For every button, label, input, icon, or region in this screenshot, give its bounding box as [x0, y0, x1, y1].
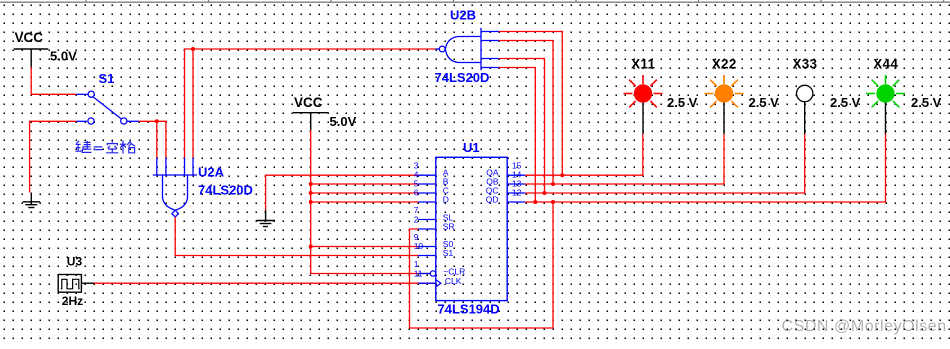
svg-text:1: 1 [414, 259, 419, 269]
wire switch lower-left to ground [30, 121, 77, 192]
lamp X33 (off) [797, 85, 813, 101]
svg-text:74LS194D: 74LS194D [438, 302, 500, 317]
IC U1 74LS194D [436, 157, 507, 300]
wire VCC2 to pin S0 [311, 246, 418, 248]
clock source U3 [58, 275, 94, 293]
svg-text:5.0V: 5.0V [50, 49, 77, 64]
U1 right pin stubs [507, 175, 525, 202]
svg-text:10: 10 [414, 241, 424, 251]
svg-text:U1: U1 [463, 140, 480, 155]
U1 left pin stubs [418, 175, 436, 283]
svg-text:U2A: U2A [198, 165, 225, 180]
wire U2B output to U2A inputs 3,4 [185, 49, 436, 158]
svg-text:X22: X22 [712, 56, 737, 71]
VCC source V1 top-left [14, 49, 49, 67]
svg-text:2.5 V: 2.5 V [667, 95, 698, 110]
U1 CLR bubble [430, 271, 435, 276]
junction VCC-C [309, 191, 313, 195]
svg-text:X44: X44 [873, 56, 898, 71]
lamp X22 (orange, on) [705, 75, 744, 107]
U1 pin numbers right [512, 160, 522, 197]
svg-text:2.5 V: 2.5 V [830, 95, 861, 110]
junction QA [560, 173, 564, 177]
junction QC [543, 191, 547, 195]
wire VCC2 to pin B [311, 183, 418, 185]
junction U2B out branch [191, 47, 195, 51]
junction QD-feedback [551, 200, 555, 204]
junction VCC-D [309, 200, 313, 204]
junction switch-common [155, 119, 159, 123]
wire QD to lamp X44 [525, 134, 885, 202]
nand gate U2A (74LS20D, vertical) [153, 158, 197, 217]
svg-text:7: 7 [414, 205, 419, 215]
U1 pin names [443, 168, 499, 286]
wire QB to lamp X22 [525, 134, 724, 184]
svg-text:2Hz: 2Hz [62, 294, 83, 308]
svg-text:D: D [443, 194, 449, 204]
ground GND2 to pin A [266, 175, 419, 210]
svg-text:5.0V: 5.0V [330, 114, 357, 129]
wire QC to U2B input3 [499, 59, 545, 194]
wire VCC2 bus down [311, 130, 431, 274]
svg-text:X33: X33 [792, 56, 817, 71]
svg-text:74LS20D: 74LS20D [198, 183, 253, 198]
label key=space (CJK approximated) [75, 141, 91, 153]
svg-text:2: 2 [414, 214, 419, 224]
wire U3 to U1 CLK [94, 282, 436, 284]
wire VCC2 to pin D [311, 201, 418, 203]
svg-text:74LS20D: 74LS20D [435, 70, 490, 85]
svg-text:SR: SR [443, 222, 455, 232]
wire QD to U2B input4 [499, 68, 535, 203]
U1 pin numbers left [414, 160, 424, 278]
sheet border top line [0, 0, 950, 2]
svg-text:U3: U3 [67, 255, 83, 269]
svg-text:S1: S1 [443, 248, 454, 258]
junction VCC-S0 [309, 245, 313, 249]
junction QD-U2B [533, 200, 537, 204]
svg-text:U2B: U2B [450, 8, 476, 23]
ground GND1 [23, 193, 41, 208]
svg-text:6: 6 [414, 187, 419, 197]
wire switch common to U2A inputs 1,2 [139, 121, 166, 157]
VCC source V2 middle [293, 113, 329, 130]
switch S1 [76, 94, 139, 121]
wire QA to U2B input1 [499, 32, 562, 176]
svg-text:QD: QD [486, 194, 499, 204]
wire VCC1 to switch [31, 67, 76, 94]
junction VCC-B [309, 182, 313, 186]
U1 CLK triangle [436, 280, 441, 287]
nand gate U2B (74LS20D, mirrored) [435, 28, 499, 71]
svg-text:X11: X11 [631, 56, 655, 71]
svg-text:~CLR: ~CLR [443, 266, 465, 276]
svg-text:VCC: VCC [15, 30, 44, 45]
wire U2A output to U1 S1 pin [175, 217, 418, 256]
svg-text:2.5 V: 2.5 V [749, 95, 780, 110]
svg-text:VCC: VCC [294, 95, 323, 110]
wire QB to U2B input2 [499, 41, 553, 185]
svg-text:11: 11 [414, 269, 423, 279]
wire QD feedback to SR [410, 202, 554, 328]
lamp X44 (green, on) [866, 75, 905, 107]
lamp X11 (red, on) [624, 75, 663, 107]
wire QC to lamp X33 [525, 134, 805, 193]
svg-text:12: 12 [512, 187, 522, 197]
svg-text:S1: S1 [99, 71, 115, 86]
wire QA to lamp X11 [525, 134, 643, 175]
wire VCC2 to pin C [311, 192, 418, 194]
switch contact diamonds [88, 91, 127, 124]
svg-text:2.5 V: 2.5 V [911, 95, 942, 110]
junction QB [551, 182, 555, 186]
svg-text:CLK: CLK [445, 276, 462, 286]
